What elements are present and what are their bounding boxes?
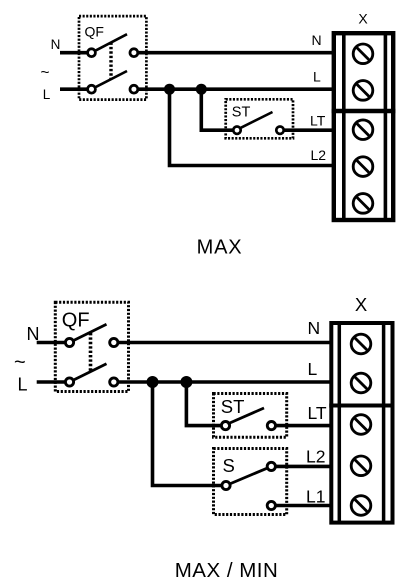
breaker QF linkage (89, 333, 93, 372)
switch ST right contact (276, 127, 283, 134)
svg-text:L2: L2 (311, 147, 327, 163)
breaker QF pole 2 lever (70, 364, 107, 382)
junction node C (147, 376, 159, 388)
terminal screw LT (353, 120, 373, 140)
wire from switch S to terminal L2 (271, 465, 333, 469)
switch ST enclosure box (226, 99, 293, 138)
wire L from QF to terminal L (114, 380, 333, 384)
terminal screw LT (351, 415, 371, 435)
breaker QF linkage (109, 43, 112, 80)
wire from switch ST to terminal LT (280, 128, 336, 132)
switch ST enclosure box (214, 394, 287, 438)
breaker QF enclosure box (55, 302, 128, 391)
svg-text:ST: ST (221, 396, 245, 417)
svg-text:L2: L2 (306, 447, 325, 467)
svg-text:N: N (308, 318, 321, 338)
svg-text:QF: QF (85, 24, 104, 40)
terminal screw L1 (351, 496, 371, 516)
switch ST right contact (267, 422, 275, 430)
svg-text:L: L (43, 87, 51, 102)
breaker QF pole 1 left contact (88, 49, 96, 57)
breaker QF pole 1 left contact (65, 338, 73, 346)
breaker QF pole 1 right contact (110, 338, 118, 346)
terminal block X group divider (332, 109, 396, 113)
breaker QF pole 1 right contact (130, 49, 138, 57)
terminal screw L2 (351, 456, 371, 476)
junction node A (164, 84, 175, 95)
svg-text:LT: LT (310, 113, 326, 129)
switch ST lever (228, 408, 265, 424)
switch S throw contact L2 (267, 462, 275, 470)
terminal block X group divider (329, 404, 394, 408)
terminal block X outer frame (334, 33, 393, 220)
switch S throw contact L1 (267, 501, 275, 509)
svg-text:X: X (355, 294, 367, 315)
breaker QF pole 2 right contact (130, 85, 138, 93)
switch ST lever (239, 112, 273, 129)
wire N from label to QF pole 1 (37, 341, 70, 345)
svg-text:~: ~ (14, 352, 26, 374)
svg-text:L: L (17, 375, 27, 395)
wire N from QF to terminal N (114, 341, 333, 345)
switch S enclosure box (214, 449, 287, 515)
terminal block X outer frame (331, 323, 392, 523)
switch ST left contact (233, 127, 240, 134)
breaker QF enclosure box (79, 16, 146, 100)
terminal screw spare (353, 194, 373, 214)
switch S common contact (222, 481, 230, 489)
terminal block X inner rail left (342, 33, 346, 220)
svg-text:S: S (223, 455, 235, 476)
svg-text:ST: ST (232, 105, 251, 121)
svg-text:N: N (51, 37, 61, 52)
wire L from QF to terminal L (134, 87, 336, 91)
wire L from label to QF pole 2 (37, 380, 70, 384)
breaker QF pole 1 lever (92, 34, 128, 53)
breaker QF pole 2 right contact (110, 378, 118, 386)
terminal block X inner rail right (384, 33, 388, 220)
svg-text:MAX: MAX (197, 237, 243, 259)
wire from node C down to switch S (153, 382, 227, 486)
wire N from label to QF pole 1 (60, 51, 92, 55)
breaker QF pole 2 lever (92, 71, 128, 89)
svg-text:MAX / MIN: MAX / MIN (175, 559, 279, 582)
junction node B (196, 84, 207, 95)
wire from switch ST to terminal LT (271, 424, 333, 428)
terminal screw L (351, 373, 371, 393)
terminal block X inner rail left (338, 323, 342, 523)
svg-text:QF: QF (62, 310, 90, 332)
terminal screw N (353, 44, 373, 64)
junction node D (180, 376, 192, 388)
terminal block X inner rail right (382, 323, 386, 523)
breaker QF pole 2 left contact (65, 378, 73, 386)
wire from switch S to terminal L1 (271, 504, 333, 508)
svg-text:LT: LT (308, 403, 327, 423)
wire from node A down to terminal L2 (170, 89, 337, 165)
terminal screw L (353, 81, 373, 101)
svg-text:~: ~ (40, 65, 49, 82)
svg-text:X: X (358, 11, 368, 27)
svg-text:L: L (308, 359, 318, 379)
svg-text:N: N (312, 32, 322, 48)
wire from node B down to switch ST (201, 89, 237, 130)
wire L from label to QF pole 2 (60, 87, 92, 91)
breaker QF pole 2 left contact (88, 85, 96, 93)
switch ST left contact (221, 422, 229, 430)
wire N from QF to terminal N (134, 51, 336, 55)
switch S lever (226, 466, 271, 485)
terminal screw L2 (353, 157, 373, 177)
breaker QF pole 1 lever (70, 324, 107, 342)
terminal screw N (351, 334, 371, 354)
svg-text:L1: L1 (306, 486, 325, 506)
svg-text:L: L (313, 69, 321, 85)
wire from node D down to switch ST (186, 382, 225, 426)
